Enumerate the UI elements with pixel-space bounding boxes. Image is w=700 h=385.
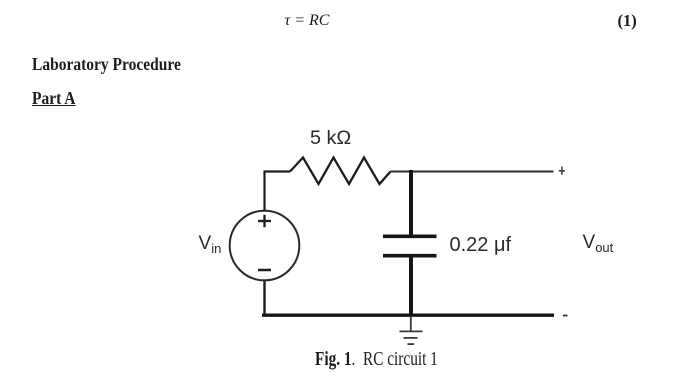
capacitor C 0.22uF top plate [383,235,437,239]
voltage source V1 circle [230,211,300,281]
ground symbol [400,316,423,344]
node A: junction drop from top wire to capacitor [409,170,413,235]
wire: top-left horizontal from source top node to resistor [265,172,291,213]
wire: source bottom vertical to bottom rail [263,279,265,315]
wire: vertical from capacitor to bottom rail [409,257,413,316]
wire: bottom rail horizontal [262,314,554,317]
label Vout (output) [583,233,614,254]
label 0.22 uF (capacitor value) [450,235,512,255]
wire: top horizontal from resistor to output plus terminal [391,171,554,173]
equation number (1) [618,13,637,30]
output terminal minus mark [563,315,568,317]
figure caption Fig. 1. RC circuit 1 [315,349,438,369]
capacitor C 0.22uF bottom plate [383,254,437,258]
output terminal plus mark [559,167,565,175]
resistor R 5k zigzag [290,158,391,185]
label Vin (source) [199,234,222,255]
equation tau = RC [285,13,330,29]
label 5 kOhm (resistor value) [310,129,351,149]
voltage source plus sign [258,215,271,227]
voltage source minus sign [258,269,271,272]
heading Part A [32,90,75,108]
heading Laboratory Procedure [32,56,181,74]
